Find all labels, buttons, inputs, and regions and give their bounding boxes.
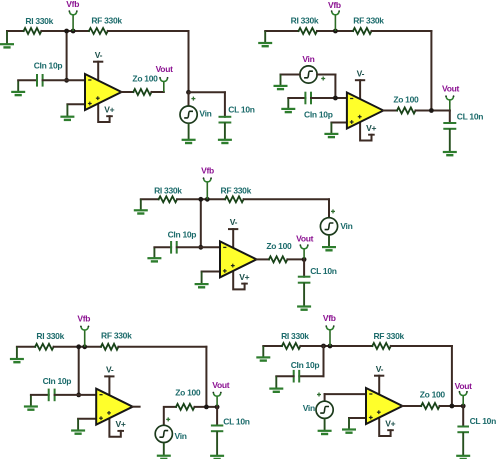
svg-text:Vfb: Vfb (66, 0, 79, 9)
svg-text:RF 330k: RF 330k (101, 330, 132, 340)
svg-text:CL 10n: CL 10n (228, 104, 254, 114)
svg-text:Vout: Vout (296, 233, 314, 243)
svg-text:V+: V+ (366, 123, 376, 133)
svg-text:CL 10n: CL 10n (457, 112, 483, 122)
svg-text:V-: V- (106, 365, 114, 375)
svg-text:RI 330k: RI 330k (154, 185, 182, 195)
svg-text:Vfb: Vfb (201, 166, 214, 176)
svg-text:Zo 100: Zo 100 (132, 74, 158, 84)
svg-text:RI 330k: RI 330k (291, 16, 319, 26)
svg-text:RF 330k: RF 330k (91, 16, 122, 26)
svg-text:CL 10n: CL 10n (223, 416, 249, 426)
svg-text:Vin: Vin (340, 221, 352, 231)
svg-text:CL 10n: CL 10n (470, 416, 496, 426)
svg-text:RF 330k: RF 330k (373, 331, 404, 341)
svg-text:CIn 10p: CIn 10p (304, 110, 333, 120)
svg-text:Vout: Vout (442, 83, 460, 93)
svg-text:Vout: Vout (212, 380, 230, 390)
svg-text:V-: V- (376, 364, 384, 374)
svg-text:RI 330k: RI 330k (36, 331, 64, 341)
svg-text:V-: V- (95, 50, 103, 60)
svg-text:Vin: Vin (199, 109, 211, 119)
svg-text:Vout: Vout (156, 64, 174, 74)
svg-text:CIn 10p: CIn 10p (291, 360, 320, 370)
svg-text:RF 330k: RF 330k (221, 185, 252, 195)
svg-text:V+: V+ (239, 272, 249, 282)
svg-text:Zo 100: Zo 100 (420, 389, 446, 399)
svg-text:Zo 100: Zo 100 (266, 241, 292, 251)
svg-text:Vfb: Vfb (323, 313, 336, 323)
svg-text:CIn 10p: CIn 10p (43, 376, 72, 386)
svg-text:CIn 10p: CIn 10p (34, 60, 63, 70)
svg-text:V+: V+ (385, 419, 395, 429)
svg-text:V-: V- (230, 217, 238, 227)
svg-text:Zo 100: Zo 100 (175, 388, 201, 398)
svg-text:CIn 10p: CIn 10p (168, 230, 197, 240)
svg-text:Zo 100: Zo 100 (393, 95, 419, 105)
svg-text:Vin: Vin (302, 54, 314, 64)
svg-text:V+: V+ (115, 419, 125, 429)
svg-text:Vout: Vout (455, 381, 473, 391)
svg-text:V+: V+ (104, 105, 114, 115)
svg-text:RI 330k: RI 330k (25, 16, 53, 26)
svg-text:CL 10n: CL 10n (310, 266, 336, 276)
svg-text:RI 330k: RI 330k (281, 331, 309, 341)
svg-text:Vfb: Vfb (328, 0, 341, 10)
svg-text:Vfb: Vfb (77, 314, 90, 324)
svg-text:Vin: Vin (175, 431, 187, 441)
svg-text:V-: V- (357, 68, 365, 78)
svg-text:Vin: Vin (303, 403, 315, 413)
svg-text:RF 330k: RF 330k (353, 16, 384, 26)
